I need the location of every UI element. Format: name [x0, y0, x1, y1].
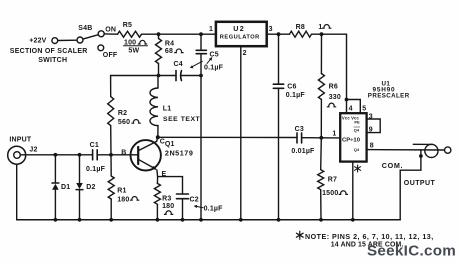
svg-text:B: B: [121, 150, 126, 157]
svg-text:1: 1: [332, 131, 336, 138]
asterisk at chip pin: [355, 165, 361, 172]
terminal +22V: [52, 38, 58, 44]
svg-text:9: 9: [369, 126, 373, 133]
capacitor C6: [278, 34, 280, 84]
svg-text:1500: 1500: [322, 190, 338, 197]
node: [157, 74, 161, 78]
node: [157, 32, 161, 36]
resistor R8: [290, 31, 312, 37]
node: [199, 218, 203, 222]
wire COM return: [400, 150, 421, 220]
svg-text:8: 8: [370, 142, 374, 149]
svg-text:E: E: [162, 171, 167, 178]
svg-text:330: 330: [329, 94, 341, 101]
svg-text:0.1µF: 0.1µF: [86, 166, 106, 173]
node: [277, 218, 281, 222]
svg-text:4: 4: [349, 106, 353, 113]
asterisk of note: [296, 231, 303, 239]
svg-text:3: 3: [269, 26, 273, 33]
switch OFF contact: [98, 45, 104, 51]
svg-text:+22V: +22V: [29, 38, 46, 45]
node: [78, 153, 82, 157]
connector output jack: [413, 143, 432, 145]
svg-text:5W: 5W: [128, 48, 139, 55]
svg-text:3: 3: [369, 113, 373, 120]
svg-text:1: 1: [209, 26, 213, 33]
svg-text:INPUT: INPUT: [9, 136, 32, 143]
capacitor C4: [175, 71, 177, 81]
resistor R2: [110, 76, 112, 97]
wire chip bottom pin: [352, 162, 354, 220]
wire input jack ground: [16, 164, 18, 220]
svg-text:560: 560: [118, 119, 130, 126]
switch S4B pole: [77, 37, 83, 43]
svg-text:C5: C5: [210, 52, 219, 59]
wire input: [20, 154, 92, 156]
arrow to C5 label: [207, 59, 211, 64]
svg-text:Q4: Q4: [354, 128, 360, 133]
wire to base: [97, 154, 138, 156]
wire C5 column to ground: [200, 76, 202, 220]
svg-text:SWITCH: SWITCH: [38, 57, 67, 64]
wire: [312, 33, 347, 35]
wire: [267, 33, 290, 35]
transistor Q1: [131, 140, 161, 170]
switch ON contact: [98, 31, 104, 37]
arrow to C2: [197, 206, 204, 207]
resistor R7: [320, 138, 323, 170]
diode D2: [79, 155, 81, 183]
svg-text:PRESCALER: PRESCALER: [368, 92, 410, 99]
capacitor C1: [92, 150, 94, 160]
svg-text:R3: R3: [162, 195, 171, 202]
svg-text:OFF: OFF: [103, 52, 118, 59]
wire: [142, 33, 216, 35]
switch blade: [83, 35, 98, 39]
node: [239, 218, 243, 222]
wire collector to C3: [158, 136, 297, 138]
node: [156, 218, 160, 222]
IC U1 prescaler box: [340, 113, 366, 161]
wire: [104, 33, 117, 35]
wire pin3 pin9 loop: [367, 119, 381, 133]
svg-text:180: 180: [117, 196, 129, 203]
svg-text:SECTION OF SCALER: SECTION OF SCALER: [10, 48, 88, 55]
svg-text:ON: ON: [105, 27, 116, 34]
node: [351, 218, 355, 222]
node: [320, 32, 324, 36]
node: [345, 98, 349, 102]
node: [199, 32, 203, 36]
wire: [346, 34, 348, 99]
svg-text:PE: PE: [354, 119, 360, 124]
svg-text:C4: C4: [174, 61, 183, 68]
inductor L1: [157, 76, 159, 89]
node: [109, 218, 113, 222]
svg-text:1: 1: [318, 24, 322, 31]
resistor R3: [154, 183, 160, 204]
value underline R5: [124, 45, 148, 47]
wire regulator pin 2: [240, 46, 242, 220]
svg-text:R2: R2: [118, 110, 127, 117]
svg-text:D1: D1: [61, 184, 70, 191]
node: [181, 218, 185, 222]
svg-text:5: 5: [362, 106, 366, 113]
diode D1: [54, 155, 56, 183]
op-amp U2 regulator box: [216, 22, 267, 46]
wire C3 to chip pin 1: [302, 137, 340, 139]
wire node row y75.5: [111, 75, 176, 77]
svg-text:SEE TEXT: SEE TEXT: [163, 116, 201, 123]
node: [54, 153, 58, 157]
node: [78, 218, 82, 222]
svg-text:R4: R4: [165, 40, 174, 47]
node: [277, 32, 281, 36]
svg-text:0.1µF: 0.1µF: [286, 92, 306, 99]
node: [199, 74, 203, 78]
capacitor C3: [296, 133, 298, 143]
svg-text:R5: R5: [123, 22, 132, 29]
svg-text:R8: R8: [296, 24, 305, 31]
resistor R4: [158, 34, 160, 38]
svg-text:C1: C1: [90, 142, 99, 149]
svg-text:Q1: Q1: [165, 141, 175, 148]
svg-text:S4B: S4B: [78, 25, 92, 32]
wire pin 4: [346, 100, 348, 114]
resistor R6: [320, 34, 322, 73]
wire: [58, 39, 77, 41]
capacitor C2: [177, 193, 189, 195]
svg-text:L1: L1: [163, 105, 172, 112]
wire pin 5: [347, 100, 361, 114]
resistor R1: [110, 155, 112, 176]
svg-text:OUTPUT: OUTPUT: [404, 180, 436, 187]
svg-text:SeekIC.com: SeekIC.com: [367, 243, 456, 260]
node: [319, 218, 323, 222]
node collector: [156, 135, 160, 139]
overline pin9 glyph: [354, 126, 360, 128]
svg-text:2: 2: [243, 50, 247, 57]
arrow to C4: [193, 61, 203, 66]
svg-text:CP÷10: CP÷10: [342, 137, 361, 143]
svg-text:2N5179: 2N5179: [165, 149, 193, 158]
svg-text:C2: C2: [190, 196, 199, 203]
svg-text:0.1µF: 0.1µF: [204, 65, 224, 72]
resistor R5: [118, 31, 142, 37]
svg-text:R1: R1: [117, 188, 126, 195]
svg-text:NOTE: PINS 2, 6, 7, 10, 11, 12: NOTE: PINS 2, 6, 7, 10, 11, 12, 13,: [305, 233, 434, 241]
wire emitter: [156, 170, 159, 177]
svg-text:0.1µF: 0.1µF: [204, 206, 224, 213]
wire ground rail: [17, 219, 401, 221]
wire pin 8 output: [367, 149, 445, 151]
svg-text:COM.: COM.: [382, 161, 404, 170]
connector J2 input jack: [8, 146, 26, 164]
node: [319, 136, 323, 140]
svg-text:100: 100: [124, 40, 136, 47]
node base: [109, 153, 113, 157]
capacitor C5: [200, 34, 202, 50]
svg-text:J2: J2: [29, 146, 37, 153]
svg-text:U2: U2: [233, 24, 245, 33]
svg-text:68: 68: [165, 48, 173, 55]
svg-text:0.01µF: 0.01µF: [291, 148, 315, 155]
svg-text:Q4: Q4: [354, 147, 360, 152]
svg-text:D2: D2: [86, 184, 95, 191]
node: [54, 218, 58, 222]
svg-text:R6: R6: [329, 84, 338, 91]
svg-text:R7: R7: [328, 177, 337, 184]
svg-text:C6: C6: [287, 84, 296, 91]
svg-text:C3: C3: [295, 126, 304, 133]
svg-text:180: 180: [162, 203, 174, 210]
node: [419, 154, 423, 158]
svg-text:REGULATOR: REGULATOR: [220, 35, 260, 41]
